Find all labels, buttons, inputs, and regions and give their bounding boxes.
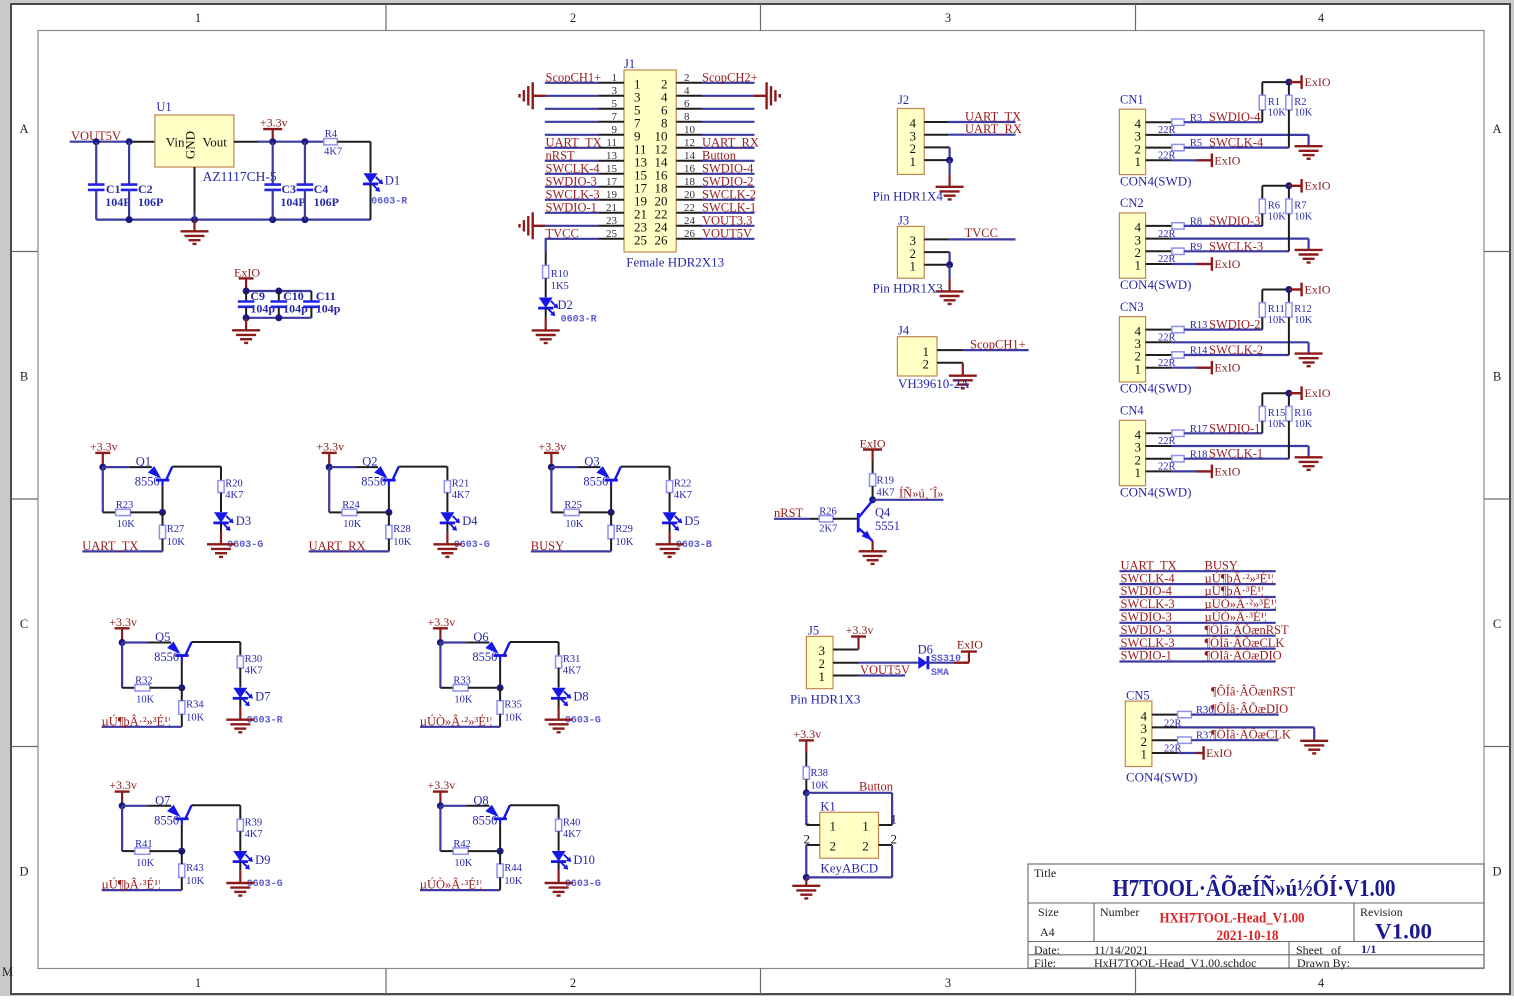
svg-text:5: 5 bbox=[612, 98, 618, 110]
svg-text:ÍÑ»ú¸´Î»: ÍÑ»ú¸´Î» bbox=[899, 487, 943, 501]
svg-text:R41: R41 bbox=[135, 839, 153, 850]
wire emitter bbox=[872, 541, 874, 542]
svg-text:R35: R35 bbox=[504, 700, 522, 711]
svg-text:J4: J4 bbox=[898, 324, 910, 338]
svg-text:+3.3v: +3.3v bbox=[109, 615, 137, 629]
svg-text:UART_TX: UART_TX bbox=[1121, 558, 1177, 572]
ground bbox=[545, 870, 573, 895]
wire bbox=[468, 825, 504, 855]
svg-text:9: 9 bbox=[612, 124, 618, 136]
svg-text:13: 13 bbox=[606, 150, 618, 162]
wire pin4 bbox=[1146, 432, 1172, 434]
wire pin3 bbox=[924, 238, 1015, 240]
wire net tie SWDIO-3 bbox=[1119, 635, 1275, 637]
capacitor C11 bbox=[303, 289, 341, 318]
ground bbox=[545, 707, 573, 732]
ground bbox=[949, 363, 977, 389]
wire base branch bbox=[440, 643, 453, 688]
J1 pin 15 bbox=[598, 163, 647, 183]
wire pin3 to gnd bbox=[1146, 446, 1309, 457]
ground (left of J1 pin 3) bbox=[520, 82, 546, 109]
svg-text:3: 3 bbox=[945, 11, 951, 25]
node µÚ¶þÂ·²»³É¹¦ bbox=[1205, 571, 1274, 585]
svg-text:Q6: Q6 bbox=[473, 630, 488, 644]
wire bbox=[181, 688, 183, 727]
resistor R35 bbox=[497, 700, 523, 724]
svg-text:6: 6 bbox=[684, 98, 690, 110]
svg-text:+3.3v: +3.3v bbox=[793, 727, 821, 741]
svg-text:R33: R33 bbox=[453, 676, 471, 687]
svg-text:J1: J1 bbox=[624, 57, 635, 71]
svg-text:µÚÒ»Â·³É¹¦: µÚÒ»Â·³É¹¦ bbox=[1205, 610, 1267, 624]
svg-text:D1: D1 bbox=[385, 173, 400, 187]
power ExIO bbox=[1289, 282, 1331, 296]
wire bbox=[702, 238, 755, 240]
diode D8 LED bbox=[551, 688, 601, 727]
connector CN5 bbox=[1125, 689, 1152, 767]
wire bbox=[220, 493, 222, 512]
J1 pin 9 bbox=[598, 124, 640, 144]
svg-text:10K: 10K bbox=[1268, 315, 1287, 326]
resistor R29 bbox=[608, 524, 634, 548]
node UART_TX bbox=[82, 539, 162, 553]
wire base branch bbox=[122, 806, 135, 851]
J1 pin 20 bbox=[655, 189, 703, 209]
ground bbox=[792, 877, 820, 898]
wire pin2 right bbox=[879, 845, 893, 877]
wire pin1 left bbox=[806, 793, 820, 825]
wire bbox=[545, 82, 599, 84]
node SWDIO-2 bbox=[1184, 318, 1262, 332]
wire pin2 bbox=[937, 362, 963, 364]
node µÚÒ»Â·³É¹¦ bbox=[1205, 610, 1267, 624]
svg-text:10K: 10K bbox=[1268, 419, 1287, 430]
svg-text:Pin HDR1X3: Pin HDR1X3 bbox=[873, 281, 943, 296]
power ExIO bbox=[1197, 361, 1241, 375]
svg-text:8550: 8550 bbox=[361, 475, 386, 489]
wire emitter bbox=[103, 466, 152, 468]
svg-text:BUSY: BUSY bbox=[1205, 558, 1238, 572]
svg-text:¶ÔÍâ·ÂÕæDIO: ¶ÔÍâ·ÂÕæDIO bbox=[1211, 702, 1288, 716]
svg-text:4K7: 4K7 bbox=[324, 147, 342, 158]
svg-text:V1.00: V1.00 bbox=[1375, 919, 1432, 944]
svg-text:Q1: Q1 bbox=[136, 455, 151, 469]
resistor R8 22R bbox=[1158, 217, 1202, 240]
svg-text:SWCLK-3: SWCLK-3 bbox=[1121, 597, 1175, 611]
node UART_TX bbox=[965, 110, 1021, 124]
node UART_RX bbox=[965, 122, 1022, 136]
wire bbox=[579, 486, 615, 516]
svg-text:1K5: 1K5 bbox=[551, 281, 569, 292]
svg-text:CN2: CN2 bbox=[1120, 196, 1144, 210]
svg-text:4K7: 4K7 bbox=[225, 490, 243, 501]
svg-text:Female HDR2X13: Female HDR2X13 bbox=[626, 255, 724, 270]
node ¶ÔÍâ·ÂÕænRST floating bbox=[1211, 685, 1295, 699]
svg-text:CON4(SWD): CON4(SWD) bbox=[1120, 484, 1192, 499]
J1 pin 16 bbox=[655, 163, 703, 183]
svg-text:VOUT5V: VOUT5V bbox=[702, 226, 752, 240]
wire net tie SWDIO-1 bbox=[1119, 660, 1275, 662]
node UART_TX bbox=[546, 135, 602, 149]
svg-text:0603-G: 0603-G bbox=[454, 540, 490, 551]
node Button bbox=[702, 148, 737, 162]
wire collector bbox=[399, 467, 448, 481]
resistor R42 bbox=[453, 839, 473, 869]
svg-text:SWDIO-1: SWDIO-1 bbox=[546, 200, 597, 214]
node SWCLK-1 bbox=[1184, 447, 1289, 461]
wire bbox=[545, 95, 599, 97]
J1 pin 12 bbox=[655, 137, 703, 157]
wire pin3 to gnd bbox=[1146, 239, 1309, 250]
svg-text:M: M bbox=[2, 965, 13, 979]
svg-text:ExIO: ExIO bbox=[1305, 282, 1331, 296]
svg-text:A: A bbox=[19, 122, 28, 136]
node VOUT5V bbox=[702, 226, 752, 240]
svg-text:10K: 10K bbox=[393, 537, 412, 548]
power ExIO bbox=[860, 436, 886, 461]
svg-text:R28: R28 bbox=[393, 524, 411, 535]
svg-text:J3: J3 bbox=[898, 214, 909, 228]
node UART_RX bbox=[702, 135, 759, 149]
svg-text:SWDIO-3: SWDIO-3 bbox=[1209, 214, 1260, 228]
svg-text:104P: 104P bbox=[105, 195, 130, 209]
wire base branch bbox=[551, 467, 564, 512]
wire pin1 bbox=[1146, 470, 1197, 472]
svg-text:D7: D7 bbox=[255, 690, 270, 704]
svg-text:SWDIO-1: SWDIO-1 bbox=[1121, 649, 1172, 663]
node µÚÒ»Â·²»³É¹¦ bbox=[1205, 597, 1277, 611]
wire bbox=[239, 668, 241, 688]
svg-text:10K: 10K bbox=[504, 876, 523, 887]
node ¶ÔÍâ·ÂÕæCLK bbox=[1205, 636, 1285, 650]
svg-text:1/1: 1/1 bbox=[1361, 942, 1376, 956]
wire collector bbox=[192, 805, 241, 819]
svg-text:SWCLK-3: SWCLK-3 bbox=[1209, 239, 1263, 253]
resistor R11 10K bbox=[1259, 290, 1286, 330]
svg-text:12: 12 bbox=[684, 137, 695, 149]
node ¶ÔÍâ·ÂÕæDIO bbox=[1191, 702, 1288, 716]
svg-text:C: C bbox=[1493, 617, 1501, 631]
svg-text:2021-10-18: 2021-10-18 bbox=[1217, 928, 1279, 944]
svg-text:TVCC: TVCC bbox=[965, 226, 998, 240]
wire bbox=[869, 486, 876, 503]
wire pin1 bbox=[1146, 159, 1197, 161]
diode D2 LED bbox=[538, 298, 597, 326]
svg-text:C2: C2 bbox=[138, 182, 153, 196]
connector CN1 bbox=[1119, 93, 1145, 175]
resistor R10 bbox=[543, 266, 569, 293]
resistor R13 22R bbox=[1158, 320, 1207, 343]
resistor R31 bbox=[556, 654, 581, 677]
svg-text:R27: R27 bbox=[167, 524, 185, 535]
svg-text:ScopCH1+: ScopCH1+ bbox=[970, 337, 1026, 351]
node nRST bbox=[546, 148, 576, 162]
power +3.3v bbox=[539, 439, 567, 467]
ground bbox=[1295, 457, 1323, 470]
node SWDIO-2 bbox=[702, 174, 753, 188]
svg-text:106P: 106P bbox=[138, 195, 163, 209]
wire bbox=[702, 160, 755, 162]
svg-text:1: 1 bbox=[891, 812, 898, 827]
power ExIO bbox=[1289, 75, 1331, 89]
svg-text:+3.3v: +3.3v bbox=[109, 778, 137, 792]
svg-text:SWDIO-4: SWDIO-4 bbox=[1121, 584, 1173, 598]
svg-text:SWCLK-4: SWCLK-4 bbox=[1209, 136, 1264, 150]
svg-text:+3.3v: +3.3v bbox=[428, 615, 456, 629]
node junction bbox=[548, 464, 555, 471]
svg-text:SWDIO-3: SWDIO-3 bbox=[546, 174, 597, 188]
svg-text:BUSY: BUSY bbox=[531, 539, 564, 553]
svg-text:D4: D4 bbox=[462, 514, 478, 528]
svg-text:10: 10 bbox=[684, 124, 696, 136]
svg-text:Q7: Q7 bbox=[155, 793, 170, 807]
node SWCLK-2 bbox=[702, 187, 756, 201]
resistor R3 22R bbox=[1158, 113, 1202, 136]
svg-text:0603-R: 0603-R bbox=[371, 197, 407, 208]
svg-text:J5: J5 bbox=[808, 624, 819, 638]
comment CON4(SWD) bbox=[1120, 484, 1192, 499]
wire to D1 bbox=[337, 142, 370, 173]
wire bottom bbox=[806, 876, 892, 878]
svg-text:SWCLK-2: SWCLK-2 bbox=[702, 187, 756, 201]
power ExIO bbox=[1289, 179, 1331, 193]
svg-text:1: 1 bbox=[819, 669, 826, 684]
wire bbox=[70, 141, 155, 143]
node SWCLK-1 bbox=[702, 200, 756, 214]
resistor R43 bbox=[179, 863, 205, 887]
svg-text:SWCLK-1: SWCLK-1 bbox=[702, 200, 756, 214]
wire bbox=[702, 173, 755, 175]
diode D10 LED bbox=[551, 851, 601, 890]
wire bbox=[669, 493, 671, 512]
resistor R9 22R bbox=[1158, 242, 1202, 265]
wire pin1 bbox=[1152, 752, 1197, 754]
node junction bbox=[326, 464, 333, 471]
wire bbox=[446, 493, 448, 512]
svg-text:16: 16 bbox=[684, 163, 696, 175]
wire pin4 bbox=[1152, 714, 1178, 716]
svg-text:2: 2 bbox=[923, 357, 930, 372]
svg-text:UART_RX: UART_RX bbox=[965, 122, 1022, 136]
node SWDIO-3 bbox=[1121, 610, 1172, 624]
node VOUT5V bbox=[71, 129, 121, 143]
node junction bbox=[437, 639, 444, 646]
wire bbox=[388, 512, 390, 551]
svg-text:R25: R25 bbox=[564, 500, 582, 511]
svg-text:R40: R40 bbox=[563, 817, 581, 828]
diode D3 LED bbox=[213, 512, 263, 551]
node ¶ÔÍâ·ÂÕænRST bbox=[1205, 623, 1289, 637]
resistor R17 22R bbox=[1158, 424, 1207, 447]
svg-text:3: 3 bbox=[945, 976, 951, 990]
svg-text:Date:: Date: bbox=[1034, 943, 1060, 957]
svg-text:+3.3v: +3.3v bbox=[316, 439, 344, 453]
resistor R26 bbox=[819, 507, 837, 535]
wire emitter bbox=[440, 805, 489, 807]
svg-text:K1: K1 bbox=[820, 800, 835, 814]
svg-text:10K: 10K bbox=[565, 519, 584, 530]
wire pin3 to gnd bbox=[1146, 342, 1309, 353]
capacitor C3 bbox=[264, 142, 305, 220]
svg-text:8: 8 bbox=[684, 111, 690, 123]
svg-text:23: 23 bbox=[606, 215, 618, 227]
resistor R21 bbox=[444, 479, 469, 502]
resistor R2 10K bbox=[1286, 82, 1313, 148]
power +3.3v bbox=[316, 439, 344, 467]
svg-text:KeyABCD: KeyABCD bbox=[820, 861, 878, 876]
wire base branch bbox=[122, 643, 135, 688]
svg-text:4: 4 bbox=[1318, 976, 1325, 990]
svg-text:+3.3v: +3.3v bbox=[260, 116, 288, 130]
wire cap bank top bbox=[243, 288, 312, 295]
ground bbox=[181, 220, 209, 244]
node SWDIO-1 bbox=[1184, 421, 1262, 435]
svg-text:3: 3 bbox=[612, 85, 618, 97]
svg-text:10K: 10K bbox=[454, 695, 473, 706]
power ExIO bbox=[1197, 153, 1241, 167]
svg-text:CON4(SWD): CON4(SWD) bbox=[1120, 277, 1192, 292]
transistor Q1 8550 bbox=[135, 455, 173, 489]
ground bbox=[433, 532, 461, 557]
svg-text:¶ÔÍâ·ÂÕæCLK: ¶ÔÍâ·ÂÕæCLK bbox=[1205, 636, 1285, 650]
wire right branch bbox=[879, 793, 893, 825]
wire bbox=[357, 486, 393, 516]
svg-text:104p: 104p bbox=[283, 301, 308, 315]
svg-text:Sheet: Sheet bbox=[1296, 943, 1323, 957]
wire bbox=[545, 121, 599, 123]
svg-text:ExIO: ExIO bbox=[957, 637, 983, 651]
svg-text:Button: Button bbox=[702, 148, 737, 162]
connector J5 bbox=[806, 624, 833, 689]
svg-text:¶ÔÍâ·ÂÕænRST: ¶ÔÍâ·ÂÕænRST bbox=[1211, 685, 1295, 699]
svg-text:1: 1 bbox=[1141, 747, 1148, 762]
wire pin1 bbox=[1146, 367, 1197, 369]
node ScopCH1+ bbox=[970, 337, 1026, 351]
power ExIO bbox=[234, 266, 260, 291]
wire bbox=[162, 512, 164, 551]
wire bbox=[558, 831, 560, 851]
wire net tie SWCLK-4 bbox=[1119, 583, 1275, 585]
wire gnd bus bbox=[96, 216, 370, 223]
svg-text:R39: R39 bbox=[245, 817, 263, 828]
svg-text:UART_RX: UART_RX bbox=[309, 539, 366, 553]
svg-text:R44: R44 bbox=[504, 863, 522, 874]
wire pin2 bbox=[1146, 250, 1172, 252]
svg-text:ExIO: ExIO bbox=[1305, 179, 1331, 193]
svg-text:10K: 10K bbox=[811, 781, 830, 792]
wire net tie SWCLK-3 bbox=[1119, 647, 1275, 649]
svg-text:CN4: CN4 bbox=[1120, 404, 1144, 418]
svg-text:SWDIO-3: SWDIO-3 bbox=[1121, 623, 1172, 637]
wire pullup top bbox=[1262, 79, 1292, 86]
svg-text:SMA: SMA bbox=[931, 668, 949, 679]
node SWDIO-1 bbox=[546, 200, 597, 214]
svg-text:21: 21 bbox=[606, 202, 617, 214]
svg-text:R10: R10 bbox=[551, 269, 569, 280]
svg-text:+3.3v: +3.3v bbox=[539, 439, 567, 453]
wire bbox=[499, 851, 501, 890]
wire emitter bbox=[122, 805, 171, 807]
svg-text:1: 1 bbox=[862, 819, 869, 834]
svg-text:17: 17 bbox=[606, 176, 618, 188]
ground bbox=[936, 175, 964, 200]
wire bbox=[810, 518, 819, 520]
svg-text:10K: 10K bbox=[136, 695, 155, 706]
resistor R18 22R bbox=[1158, 449, 1207, 472]
svg-text:SWDIO-1: SWDIO-1 bbox=[1209, 421, 1260, 435]
svg-text:4K7: 4K7 bbox=[877, 488, 895, 499]
J1 pin 13 bbox=[598, 150, 647, 170]
wire bbox=[150, 662, 186, 692]
svg-text:8550: 8550 bbox=[154, 650, 179, 664]
resistor R33 bbox=[453, 676, 473, 706]
wire pin1 bbox=[1146, 263, 1197, 265]
node SWDIO-4 bbox=[702, 161, 754, 175]
power +3.3v bbox=[260, 116, 288, 142]
power +3.3v bbox=[109, 778, 137, 806]
wire collector bbox=[510, 642, 559, 656]
svg-text:R29: R29 bbox=[615, 524, 633, 535]
wire bbox=[131, 486, 167, 516]
resistor R24 bbox=[342, 500, 362, 530]
svg-text:Pin HDR1X4: Pin HDR1X4 bbox=[873, 189, 944, 204]
wire bbox=[702, 225, 755, 227]
wire bbox=[545, 225, 599, 227]
comment CON4(SWD) bbox=[1126, 770, 1198, 785]
svg-text:10K: 10K bbox=[343, 519, 362, 530]
svg-text:HXH7TOOL-Head_V1.00: HXH7TOOL-Head_V1.00 bbox=[1160, 911, 1305, 927]
svg-text:A: A bbox=[1492, 122, 1501, 136]
power +3.3v bbox=[846, 623, 874, 650]
svg-text:20: 20 bbox=[684, 189, 696, 201]
svg-text:R12: R12 bbox=[1294, 304, 1312, 315]
svg-text:Q8: Q8 bbox=[473, 793, 488, 807]
svg-text:10K: 10K bbox=[167, 537, 186, 548]
diode D4 LED bbox=[440, 512, 490, 551]
resistor R25 bbox=[564, 500, 584, 530]
svg-text:+3.3v: +3.3v bbox=[428, 778, 456, 792]
wire pin4 bbox=[1146, 329, 1172, 331]
power +3.3v bbox=[793, 727, 821, 753]
resistor R40 bbox=[556, 817, 581, 840]
svg-text:8550: 8550 bbox=[472, 650, 497, 664]
svg-text:Q2: Q2 bbox=[362, 455, 377, 469]
resistor R15 10K bbox=[1259, 393, 1286, 433]
svg-text:µÚÒ»Â·²»³É¹¦: µÚÒ»Â·²»³É¹¦ bbox=[420, 714, 492, 728]
resistor R12 10K bbox=[1286, 290, 1313, 356]
svg-text:8550: 8550 bbox=[583, 475, 608, 489]
svg-text:D3: D3 bbox=[236, 514, 251, 528]
resistor R7 10K bbox=[1286, 186, 1313, 252]
resistor R27 bbox=[159, 524, 185, 548]
wire pullup top bbox=[1262, 390, 1292, 397]
wire pullup top bbox=[1262, 286, 1292, 293]
wire bbox=[702, 82, 755, 84]
ground bbox=[656, 532, 684, 557]
connector CN2 bbox=[1119, 196, 1145, 278]
svg-text:VOUT5V: VOUT5V bbox=[860, 663, 910, 677]
svg-text:SWDIO-4: SWDIO-4 bbox=[1209, 110, 1261, 124]
J1 pin 4 bbox=[661, 85, 702, 105]
wire U1 gnd pin bbox=[194, 167, 196, 220]
wire pin2 bbox=[1146, 354, 1172, 356]
J1 pin 18 bbox=[655, 176, 703, 196]
svg-text:D2: D2 bbox=[558, 298, 573, 312]
wire bbox=[545, 278, 547, 297]
svg-text:CON4(SWD): CON4(SWD) bbox=[1126, 770, 1198, 785]
wire pullup top bbox=[1262, 182, 1292, 189]
wire bbox=[702, 108, 755, 110]
